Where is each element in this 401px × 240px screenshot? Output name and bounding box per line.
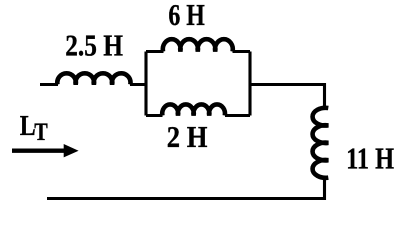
svg-text:6 H: 6 H xyxy=(168,0,205,32)
svg-text:11 H: 11 H xyxy=(346,141,394,176)
svg-text:2 H: 2 H xyxy=(167,119,208,154)
svg-text:L: L xyxy=(20,111,36,142)
svg-text:2.5 H: 2.5 H xyxy=(65,28,123,63)
svg-text:T: T xyxy=(34,117,48,146)
